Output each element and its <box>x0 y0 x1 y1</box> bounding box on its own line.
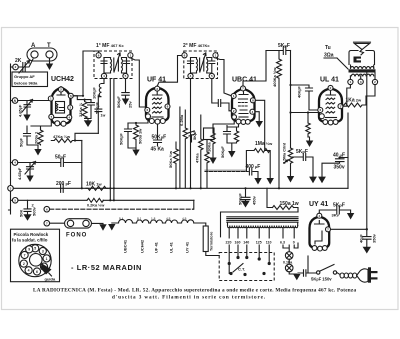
cathode network wire <box>27 119 51 129</box>
svg-text:0.2Ka ½w: 0.2Ka ½w <box>87 204 104 208</box>
MF1 primary return verticals <box>110 79 114 201</box>
svg-text:Gruppo AF: Gruppo AF <box>14 74 35 79</box>
osc grid vertical <box>75 141 82 189</box>
antenna coupling capacitor <box>18 59 33 73</box>
terminal 6 <box>44 206 50 212</box>
svg-text:guida: guida <box>45 277 56 282</box>
svg-text:4 5: 4 5 <box>182 217 187 221</box>
label 1 MF 467 Kc <box>96 43 124 49</box>
volume pot 0.5Ma <box>282 142 293 176</box>
pot top cap 5K to grid <box>291 149 314 177</box>
voltage selector dashed box <box>219 253 274 281</box>
ground arrows right pair <box>309 162 339 184</box>
UCH42 pin circles <box>48 87 73 126</box>
svg-text:LA RADIOTECNICA (M. Festa) - M: LA RADIOTECNICA (M. Festa) - Mod. LR. 52… <box>33 287 356 294</box>
label 2 MF 467Kc <box>183 43 210 49</box>
osc feedback wire <box>75 133 98 140</box>
svg-text:1: 1 <box>46 257 48 261</box>
ground arrow bypass <box>241 200 249 208</box>
svg-text:3Kv: 3Kv <box>332 213 340 218</box>
power transformer core lines <box>227 217 298 222</box>
label 4.65 <box>17 167 22 180</box>
caption line 2 <box>112 295 266 301</box>
mains plug <box>357 267 378 282</box>
antenna terminal labels A T <box>31 43 51 49</box>
svg-text:UY 41: UY 41 <box>185 241 190 253</box>
svg-text:4 5: 4 5 <box>166 217 171 221</box>
svg-text:160: 160 <box>235 241 241 245</box>
label UL 41 <box>320 77 339 84</box>
triode-hexode tube UCH42 <box>52 87 71 124</box>
cathode cap 50KpF <box>19 129 39 147</box>
power transformer top rail <box>221 212 299 237</box>
svg-text:50KpF: 50KpF <box>119 133 124 145</box>
dial scale box <box>11 229 60 282</box>
UF41 cathode resistor 500a <box>128 119 148 148</box>
antenna terminal block <box>27 48 57 61</box>
svg-text:6.3: 6.3 <box>280 241 285 245</box>
wire fono to ground <box>92 223 107 230</box>
heater UBC41 <box>119 217 133 253</box>
ground arrow decoupling <box>23 214 31 221</box>
svg-text:2: 2 <box>23 262 25 266</box>
ground arrow cathode <box>34 145 41 156</box>
tap voltage labels <box>226 241 295 245</box>
svg-text:0.1Fa: 0.1Fa <box>283 260 293 264</box>
svg-text:5KpF 150v: 5KpF 150v <box>311 277 332 282</box>
svg-text:45 Ka: 45 Ka <box>151 147 165 153</box>
MF2 tuning arrow <box>200 53 206 72</box>
ground arrow UBC cathode <box>228 151 235 158</box>
UF41 internals <box>152 92 163 118</box>
svg-text:450v: 450v <box>252 195 257 205</box>
heater UF41 <box>151 217 163 253</box>
svg-text:Termistore: Termistore <box>210 232 214 251</box>
screen resistor 31Ka <box>73 96 91 119</box>
MF2 secondary coil <box>204 58 208 74</box>
output transformer secondary bumps <box>352 74 374 76</box>
dropper resistor 0.2Ka <box>87 198 104 207</box>
MF2 terminals <box>182 53 218 79</box>
filter cap 40uF 350v <box>333 153 348 171</box>
B+ rail with 5KpF cap <box>266 43 291 55</box>
svg-text:125: 125 <box>256 241 262 245</box>
svg-text:UY 41: UY 41 <box>309 201 328 208</box>
IF transformer 1 shield box <box>94 51 132 79</box>
det filter box <box>204 128 215 188</box>
svg-text:31Ka ¼: 31Ka ¼ <box>78 102 83 117</box>
svg-text:7: 7 <box>24 253 26 257</box>
cathode resistor 200Ka <box>34 129 44 145</box>
screen resistor 1Ka 2w <box>342 98 366 108</box>
UY41 pins <box>312 213 330 251</box>
UBC41 pins <box>231 86 255 125</box>
grid coupling cap 40KpF <box>291 85 318 110</box>
svg-text:50KpF: 50KpF <box>116 96 121 108</box>
padder cap on osc line <box>95 95 105 133</box>
terminal 7 <box>44 220 50 226</box>
bus bypass cap 50KpF <box>238 188 257 205</box>
Gruppo AF box <box>12 72 48 87</box>
UF41 pins <box>145 86 170 124</box>
svg-text:50Ka ½w: 50Ka ½w <box>168 150 173 168</box>
thermistor <box>203 223 219 256</box>
B+ vertical to bus <box>348 96 366 188</box>
svg-text:9: 9 <box>28 248 30 252</box>
svg-text:d'uscita 3 watt. Filamenti in: d'uscita 3 watt. Filamenti in serie con … <box>112 295 266 301</box>
diode load wire + ground <box>255 112 263 128</box>
surge resistor 150a 1w <box>267 188 299 212</box>
coupling cap 400uF <box>246 164 261 178</box>
cathode wire to reservoir <box>331 228 367 230</box>
UL41 internals <box>326 92 337 118</box>
svg-text:40KpF: 40KpF <box>297 86 302 98</box>
svg-text:6: 6 <box>36 270 38 274</box>
output transformer primary bumps <box>351 65 374 68</box>
svg-text:0.2Ma: 0.2Ma <box>179 114 184 126</box>
output pentode UL41 <box>319 89 342 123</box>
MF1 tuning arrow <box>114 53 120 72</box>
terminal 4 <box>11 160 18 166</box>
MF1 terminals <box>96 53 133 79</box>
mains cord twists <box>340 273 357 278</box>
AVC cap 50KpF under MF1 <box>116 79 133 108</box>
MF2 sec bottom cap to diode <box>212 79 231 111</box>
UBC41 internals <box>239 91 249 117</box>
label Tu 3ohm <box>324 45 348 69</box>
svg-text:5KpF: 5KpF <box>278 43 290 49</box>
svg-text:1 8: 1 8 <box>151 217 156 221</box>
svg-text:350v: 350v <box>334 165 345 171</box>
svg-text:5: 5 <box>34 247 36 251</box>
heater UL41 <box>166 217 178 253</box>
svg-text:50KpF: 50KpF <box>238 193 243 205</box>
ground arrows under coupling <box>254 178 274 185</box>
svg-text:10KpF: 10KpF <box>92 87 97 99</box>
screen feed resistor 50Ka <box>168 142 179 188</box>
set name text <box>71 263 142 272</box>
screen bypass cap 50KpF <box>85 100 100 119</box>
svg-text:UBC41: UBC41 <box>123 239 128 253</box>
svg-text:8 1: 8 1 <box>137 217 142 221</box>
ground arrow under trimmer <box>23 111 30 121</box>
transformer taps <box>229 228 294 238</box>
grid resistor 1Ma <box>246 141 273 178</box>
ground arrow under T <box>46 64 53 71</box>
ground arrow lamps <box>293 243 300 280</box>
heater UCH42 <box>137 217 149 253</box>
wire plate to transformer <box>343 85 350 107</box>
MF1 secondary cap <box>124 58 130 74</box>
svg-text:3: 3 <box>42 249 44 253</box>
label UCH42 <box>51 76 74 83</box>
terminal 5 <box>11 198 19 204</box>
IF transformer 2 shield box <box>184 51 218 79</box>
output transformer frame <box>349 51 375 65</box>
svg-text:FONO: FONO <box>66 233 87 239</box>
MF2 primary coil <box>197 58 200 74</box>
svg-text:5 4: 5 4 <box>119 217 124 221</box>
mains switch <box>298 256 340 276</box>
selector switch contacts <box>229 264 265 277</box>
FONO label <box>66 233 87 239</box>
MF2 prim bottom wire <box>190 79 192 188</box>
heater chain ground arrow <box>108 224 115 231</box>
svg-text:4.65pF: 4.65pF <box>18 104 23 117</box>
dial rotary disc <box>19 244 51 276</box>
svg-text:200a 1: 200a 1 <box>34 131 39 144</box>
label UF 41 <box>147 77 166 84</box>
terminal 3 <box>8 186 14 192</box>
wire UBC top cap to B+ rail <box>243 51 266 86</box>
svg-text:UL 41: UL 41 <box>169 241 174 253</box>
svg-text:50pF: 50pF <box>19 137 24 147</box>
output transformer terminals <box>348 73 378 85</box>
reservoir cap 40uF 350v <box>359 229 377 253</box>
oscillator trimmer cap <box>22 100 33 113</box>
svg-text:47Ka: 47Ka <box>195 153 200 163</box>
screened lead dash-dot <box>50 200 194 209</box>
wire A to tube grid <box>18 100 50 102</box>
ground arrow under MF1 cap <box>122 99 129 106</box>
MF1 primary coil <box>111 58 114 74</box>
wire UCH42 anode to MF1 <box>73 51 98 96</box>
terminal 2 on tuner strip <box>13 64 19 70</box>
svg-text:400Ka ½w: 400Ka ½w <box>272 67 277 87</box>
wire MF2 sec top to UBC grid <box>216 58 231 96</box>
shielded lead wavy <box>205 170 246 171</box>
ground arrow bias <box>209 158 216 165</box>
svg-text:2K: 2K <box>15 58 22 64</box>
svg-text:UL 41: UL 41 <box>320 77 339 84</box>
svg-text:Piccola Rowlock: Piccola Rowlock <box>14 232 49 237</box>
wire 7 to fono <box>50 222 65 224</box>
label 2K <box>15 58 22 64</box>
tap stubs to selector <box>228 245 295 265</box>
wire from 5 <box>18 199 194 201</box>
det resistor 47Ka <box>195 115 204 188</box>
wire T terminal to arrow <box>49 58 51 64</box>
svg-text:110: 110 <box>266 241 272 245</box>
svg-text:140: 140 <box>243 241 249 245</box>
pilot lamps with 0.1A fuse <box>283 245 297 274</box>
caption line 1 <box>33 287 356 294</box>
ground arrow padder <box>26 173 33 182</box>
wire UF41 top cap to MF2 <box>157 56 182 87</box>
MF1 primary cap <box>101 58 107 74</box>
svg-text:500a 1w: 500a 1w <box>138 128 143 144</box>
terminal A (tuning) <box>11 98 18 104</box>
power transformer winding bumps <box>228 222 298 228</box>
svg-text:25v: 25v <box>128 101 133 108</box>
speaker magnet C <box>354 57 362 63</box>
UY41 internals <box>315 221 325 245</box>
bus cap 200uF <box>56 181 71 192</box>
heater UY41 <box>182 217 194 253</box>
padder trimmer cap <box>25 162 36 175</box>
anode cap 5KpF 3Kv <box>319 203 354 220</box>
bus resistor 10K 1w <box>86 182 108 191</box>
B+ feed corner down <box>290 51 292 149</box>
svg-text:220: 220 <box>226 241 232 245</box>
svg-text:1w: 1w <box>101 114 106 118</box>
wire MF1 sec top to grid line <box>130 58 145 107</box>
coupling wire UBC plate <box>255 100 268 150</box>
svg-text:Geloso 963a: Geloso 963a <box>14 80 38 85</box>
svg-text:4: 4 <box>28 269 30 273</box>
cathode RC pair UBC <box>220 124 239 158</box>
svg-text:50pF: 50pF <box>55 155 66 161</box>
svg-text:fa la saldat. c/filo: fa la saldat. c/filo <box>12 238 48 243</box>
svg-text:4.65pF: 4.65pF <box>17 167 22 180</box>
ground arrow UF41 cathode <box>132 148 139 156</box>
plate load resistor 400Ka <box>272 51 282 189</box>
screen cap 50KpF + 45Ka labels <box>151 124 167 152</box>
oscillator coil <box>92 79 105 99</box>
svg-text:150a 1w: 150a 1w <box>280 201 299 207</box>
UL41 cathode resistor + ground <box>291 113 320 148</box>
svg-text:Tu: Tu <box>325 45 331 51</box>
AVC resistor chain verticals <box>179 107 188 188</box>
svg-text:UCH42: UCH42 <box>140 239 145 253</box>
ground arrow under screen network <box>84 119 92 128</box>
MF2 secondary cap <box>209 58 215 74</box>
duodiode-triode tube UBC41 <box>232 89 255 122</box>
main HT bus <box>11 187 349 189</box>
label 5KpF 150v <box>311 277 332 282</box>
svg-text:- LR·52 MARADIN: - LR·52 MARADIN <box>71 263 142 272</box>
svg-text:50KpF: 50KpF <box>220 146 225 158</box>
svg-text:0: 0 <box>293 241 295 245</box>
MF1 internal joins <box>104 58 127 74</box>
svg-text:40µF: 40µF <box>359 234 364 243</box>
dial pointer <box>41 264 56 282</box>
svg-text:UF 41: UF 41 <box>154 241 159 253</box>
pin number digits <box>10 54 377 232</box>
tuner unit edge line <box>9 64 13 214</box>
wire with 50 pF cap <box>18 155 82 167</box>
svg-text:UBC 41: UBC 41 <box>232 77 257 84</box>
resistor 47Ka half w <box>51 134 75 143</box>
svg-text:350v: 350v <box>372 233 377 243</box>
label UY 41 <box>309 201 328 208</box>
transformer tap down B+ <box>366 73 375 230</box>
MF2 internal joins <box>191 58 212 74</box>
label 4-65 pF <box>18 104 23 117</box>
svg-text:50K: 50K <box>19 210 24 217</box>
UL41 pins <box>318 85 343 125</box>
MF2 primary cap <box>188 58 194 74</box>
UCH42 internal electrodes <box>54 91 68 118</box>
decoupling cap 50K 500v <box>19 200 37 217</box>
svg-text:400 µF: 400 µF <box>246 164 261 170</box>
speaker cone <box>354 42 371 55</box>
UF41 cathode network cap 50KpF <box>119 123 137 148</box>
MF1 secondary coil <box>118 58 122 74</box>
rectifier tube UY41 <box>310 217 330 249</box>
bias resistor 10Ka under UBC <box>207 120 235 159</box>
svg-text:UCH42: UCH42 <box>51 76 74 83</box>
svg-text:10Ka: 10Ka <box>207 142 212 152</box>
AVC cap 5KpF diag <box>188 130 197 142</box>
FONO jack <box>65 219 92 228</box>
output transformer core bar <box>349 69 376 72</box>
pentode tube UF41 <box>146 88 169 122</box>
label UBC 41 <box>232 77 257 84</box>
heater chain wire <box>112 222 204 224</box>
ground arrow pot <box>287 176 294 183</box>
svg-text:500v: 500v <box>32 206 37 216</box>
